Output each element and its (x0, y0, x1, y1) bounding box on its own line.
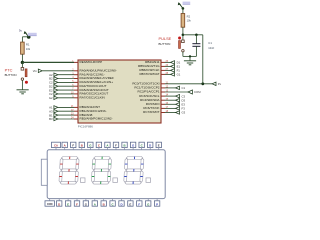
svg-text:Vin: Vin (33, 69, 37, 73)
svg-text:BUTTON: BUTTON (159, 42, 171, 46)
svg-text:RB7/ICSPDAT: RB7/ICSPDAT (139, 72, 159, 76)
svg-text:COM: COM (47, 204, 52, 206)
svg-text:D: D (58, 202, 60, 206)
svg-text:CA: CA (54, 144, 58, 148)
svg-text:E: E (67, 202, 69, 206)
svg-text:RE3/MCLR/VPP: RE3/MCLR/VPP (80, 60, 103, 64)
svg-text:RA7/OSC1/CLKIN: RA7/OSC1/CLKIN (80, 96, 105, 100)
svg-text:B: B (81, 144, 83, 148)
svg-text:P: P (156, 202, 158, 206)
svg-text:B3: B3 (49, 117, 53, 121)
svg-text:F: F (72, 144, 74, 148)
svg-text:10k: 10k (187, 19, 192, 23)
svg-text:G1: G1 (177, 73, 181, 77)
svg-text:D: D (149, 144, 151, 148)
svg-text:R2: R2 (187, 14, 191, 18)
svg-text:C1: C1 (182, 86, 186, 90)
svg-text:RC7/RX/DT: RC7/RX/DT (143, 110, 159, 114)
svg-text:10nF: 10nF (208, 46, 214, 50)
svg-text:COM: COM (194, 90, 201, 94)
svg-text:E: E (129, 202, 131, 206)
svg-text:G2: G2 (49, 96, 53, 100)
svg-text:F: F (76, 202, 78, 206)
svg-text:F: F (115, 144, 117, 148)
svg-text:PULSE: PULSE (159, 36, 172, 41)
svg-text:B: B (103, 202, 105, 206)
svg-text:E: E (158, 144, 160, 148)
svg-text:R1: R1 (26, 43, 30, 47)
svg-text:10k: 10k (26, 47, 31, 51)
svg-text:G3: G3 (182, 111, 186, 115)
svg-text:BUTTON: BUTTON (5, 73, 17, 77)
svg-text:C1: C1 (208, 41, 212, 45)
svg-text:D: D (120, 202, 122, 206)
svg-text:RB3/AN9/PGM/C12IN2-: RB3/AN9/PGM/C12IN2- (80, 117, 113, 121)
svg-text:B: B (124, 144, 126, 148)
svg-text:F: F (138, 202, 140, 206)
svg-text:PTC: PTC (5, 68, 13, 73)
svg-text:PIC16F886: PIC16F886 (78, 124, 94, 128)
